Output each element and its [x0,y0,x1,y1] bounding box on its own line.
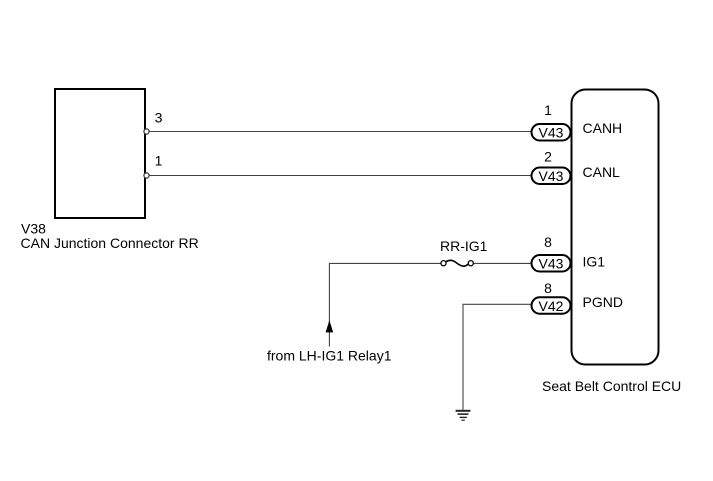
node pin 1 terminal circle [144,173,149,178]
pin 1 oval V43 [532,124,571,141]
pin 2 oval V43 [532,168,571,185]
arrow from LH-IG1 Relay1 (up-pointing arrowhead) [326,320,334,332]
wire CANL (V38 pin1 to ECU pin2) [148,175,531,177]
svg-text:IG1: IG1 [583,254,606,270]
svg-text:RR-IG1: RR-IG1 [440,238,488,254]
ground symbol [456,411,471,420]
pin 8 oval V43 (IG1) [532,255,571,272]
svg-text:V43: V43 [539,168,564,184]
wire CANH (V38 pin3 to ECU pin1) [148,131,531,133]
node pin 3 terminal circle [144,129,149,134]
wire PGND (ECU pin 8 to ground) [463,304,531,410]
svg-text:CAN Junction Connector RR: CAN Junction Connector RR [21,235,199,251]
svg-text:V43: V43 [539,124,564,140]
Seat Belt Control ECU box [572,90,659,365]
svg-text:8: 8 [544,280,552,296]
svg-text:from LH-IG1 Relay1: from LH-IG1 Relay1 [267,348,392,364]
svg-text:8: 8 [544,234,552,250]
svg-text:CANH: CANH [583,120,623,136]
connector V38 box [55,89,145,218]
wire IG1 horizontal left segment (corner to fuse) [329,263,440,346]
svg-text:Seat Belt Control ECU: Seat Belt Control ECU [542,378,681,394]
svg-text:2: 2 [544,149,552,165]
fuse RR-IG1 left terminal circle [441,261,446,266]
svg-text:1: 1 [544,102,552,118]
svg-text:1: 1 [155,153,163,169]
pin 8 oval V42 (PGND) [532,297,571,314]
fuse RR-IG1 element (S-curve) [446,260,468,266]
svg-text:V42: V42 [539,298,564,314]
svg-text:V43: V43 [539,255,564,271]
svg-text:CANL: CANL [583,164,621,180]
fuse RR-IG1 right terminal circle [468,261,473,266]
wire IG1 right segment (fuse to ECU pin 8) [474,262,531,264]
svg-text:3: 3 [155,110,163,126]
svg-text:PGND: PGND [583,294,623,310]
